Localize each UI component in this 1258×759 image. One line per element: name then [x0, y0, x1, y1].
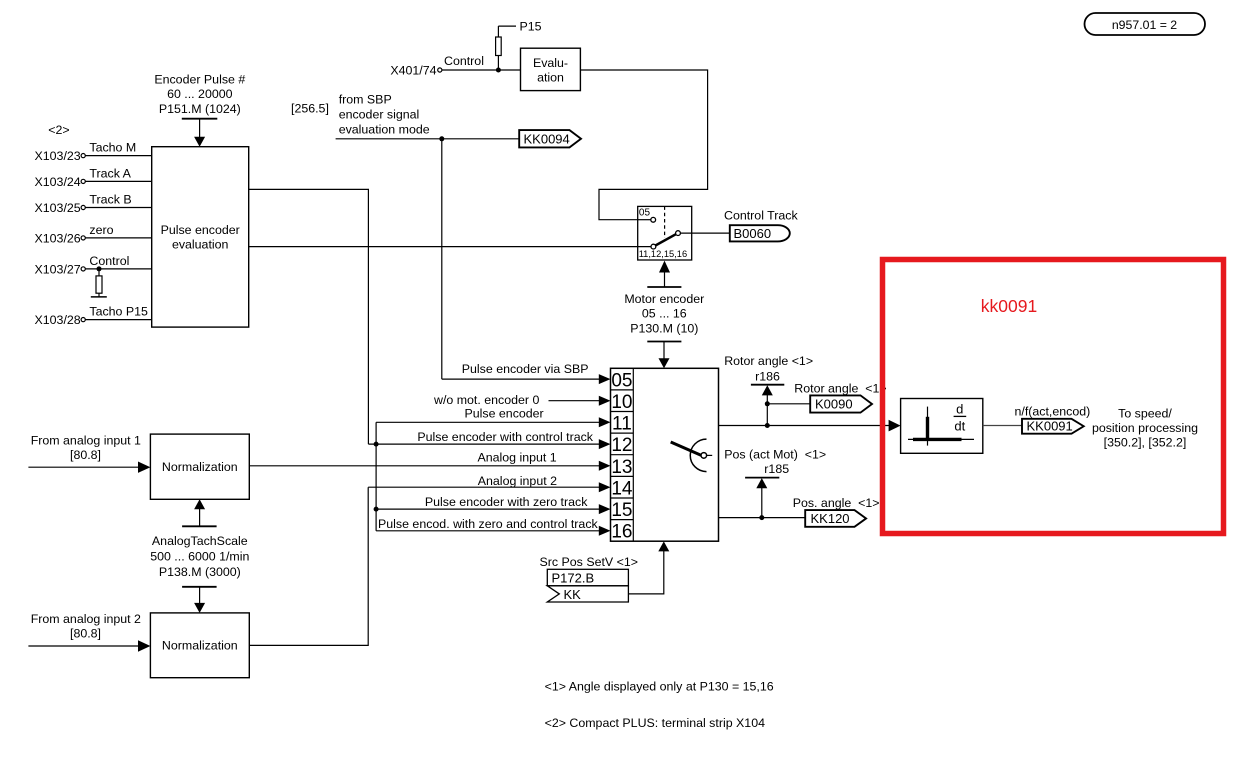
svg-text:16: 16 [611, 522, 632, 543]
mux input 11 Pulse encoder [376, 406, 610, 427]
contact circle 05 [651, 217, 656, 222]
parameter label Encoder Pulse # [154, 72, 245, 115]
parameter label Motor encoder P130 [624, 292, 704, 336]
svg-text:[80.8]: [80.8] [70, 627, 101, 641]
wire into contact 05 [638, 219, 651, 221]
svg-text:evaluation: evaluation [172, 238, 229, 252]
svg-text:P172.B: P172.B [552, 570, 595, 585]
svg-text:K0090: K0090 [815, 397, 853, 412]
svg-text:11: 11 [612, 414, 632, 435]
svg-text:15: 15 [611, 500, 632, 521]
svg-text:Evalu-: Evalu- [533, 56, 568, 70]
svg-text:[80.8]: [80.8] [70, 448, 101, 462]
svg-text:Src Pos SetV <1>: Src Pos SetV <1> [540, 555, 639, 569]
svg-text:Tacho M: Tacho M [89, 141, 136, 155]
mux input 15 Pulse encoder with zero track [376, 495, 610, 514]
wire rail B inputs 11-16 [375, 422, 377, 531]
wire rail C Normalization 2 to input 14 [249, 487, 368, 645]
label To speed/position processing [1092, 406, 1198, 449]
junction control resistor [97, 266, 102, 271]
svg-text:zero: zero [89, 223, 113, 237]
svg-text:05 ... 16: 05 ... 16 [642, 307, 687, 321]
svg-text:X401/74: X401/74 [390, 63, 436, 77]
parameter arrow into evaluation block [182, 119, 218, 147]
svg-text:From analog input 1: From analog input 1 [31, 433, 141, 447]
junction rail B input 15 [374, 507, 379, 512]
wire rail A evaluation out1 to input 12 [249, 189, 369, 444]
block Pulse encoder evaluation [152, 147, 249, 327]
svg-text:KK: KK [564, 587, 582, 602]
svg-text:n/f(act,encod): n/f(act,encod) [1015, 404, 1091, 418]
svg-text:Track A: Track A [89, 166, 131, 180]
dashed divider [664, 206, 666, 238]
svg-text:05: 05 [611, 370, 632, 391]
svg-text:w/o mot. encoder 0: w/o mot. encoder 0 [433, 393, 539, 407]
wire Evaluation to switch S1 [580, 70, 707, 220]
svg-text:Tacho P15: Tacho P15 [89, 305, 148, 319]
terminal X103/26 zero [35, 223, 152, 246]
parameter label AnalogTachScale [150, 534, 249, 579]
svg-text:Pos. angle <1>: Pos. angle <1> [793, 496, 880, 510]
wire evaluation out2 to switch contact [249, 246, 651, 248]
junction rotor angle [765, 423, 770, 428]
wire SBP to mux input 05 [442, 139, 611, 384]
page label n957.01 = 2 [1085, 13, 1206, 35]
svg-text:r186: r186 [755, 370, 780, 384]
svg-text:Rotor angle <1>: Rotor angle <1> [794, 382, 886, 396]
svg-text:r185: r185 [764, 462, 789, 476]
connector KK0094 [519, 130, 581, 147]
svg-text:B0060: B0060 [734, 226, 772, 241]
svg-text:To speed/: To speed/ [1118, 406, 1172, 420]
connector KK0091 [1022, 419, 1084, 434]
svg-text:[350.2], [352.2]: [350.2], [352.2] [1104, 436, 1187, 450]
svg-text:Pulse encoder with zero track: Pulse encoder with zero track [425, 495, 588, 509]
svg-text:Analog input 1: Analog input 1 [477, 451, 556, 465]
svg-text:P15: P15 [520, 20, 542, 34]
wire switch to B0060 [681, 232, 730, 234]
svg-text:Analog input 2: Analog input 2 [478, 474, 557, 488]
wire to K0090 [767, 403, 810, 405]
svg-text:ation: ation [537, 71, 564, 85]
svg-text:KK120: KK120 [811, 511, 850, 526]
svg-text:P138.M (3000): P138.M (3000) [159, 565, 241, 579]
wire d/dt to KK0091 [983, 425, 1022, 427]
junction Control/P15 [496, 68, 501, 73]
svg-text:P151.M (1024): P151.M (1024) [159, 102, 241, 116]
svg-text:<1> Angle displayed only at P1: <1> Angle displayed only at P130 = 15,16 [545, 679, 774, 693]
svg-text:Pulse encod. with zero and con: Pulse encod. with zero and control track [378, 517, 599, 531]
terminal X103/25 Track B [35, 193, 152, 216]
terminal X103/24 Track A [35, 166, 152, 189]
resistor on control line [91, 269, 107, 297]
wire mux out rotor angle to d/dt [719, 425, 890, 427]
connector K0090 [810, 395, 872, 412]
svg-text:kk0091: kk0091 [981, 296, 1037, 316]
junction SBP [439, 136, 444, 141]
svg-text:X103/27: X103/27 [35, 262, 81, 276]
mux input 16 Pulse encod. with zero and control track [376, 517, 610, 536]
block d/dt differentiator [901, 399, 983, 454]
block Normalization 1 [150, 434, 249, 499]
junction rail B input 12 [374, 442, 379, 447]
mux input 14 Analog input 2 [368, 474, 610, 492]
connector flag KK [547, 586, 628, 602]
wire analog input 1 [28, 462, 150, 473]
svg-text:11,12,15,16: 11,12,15,16 [639, 249, 687, 259]
terminal X401/74 [390, 63, 442, 77]
svg-text:500 ... 6000 1/min: 500 ... 6000 1/min [150, 549, 249, 563]
parameter arrow into mux top [647, 342, 681, 369]
svg-text:[256.5]: [256.5] [291, 102, 329, 116]
svg-text:Pulse encoder via SBP: Pulse encoder via SBP [462, 362, 589, 376]
mux input 13 Analog input 1 from Normalization 1 [249, 451, 610, 471]
highlight box kk0091 [883, 260, 1224, 534]
svg-text:encoder signal: encoder signal [339, 108, 420, 122]
svg-text:AnalogTachScale: AnalogTachScale [152, 534, 248, 548]
svg-text:14: 14 [611, 478, 633, 499]
svg-text:Control Track: Control Track [724, 209, 798, 223]
svg-text:n957.01 = 2: n957.01 = 2 [1112, 18, 1177, 32]
connector B0060 [730, 225, 790, 241]
mux input 10 w/o mot. encoder [433, 393, 611, 407]
display r186 [751, 370, 784, 426]
resistor to P15 [496, 26, 502, 70]
svg-text:Pulse encoder: Pulse encoder [464, 406, 543, 420]
svg-text:X103/23: X103/23 [35, 149, 81, 163]
wire SBP to KK0094 [336, 138, 520, 140]
net label From analog input 2 [31, 612, 141, 641]
svg-text:P130.M (10): P130.M (10) [630, 322, 698, 336]
svg-text:position processing: position processing [1092, 421, 1198, 435]
svg-text:<2> Compact PLUS: terminal str: <2> Compact PLUS: terminal strip X104 [545, 716, 765, 730]
net label from SBP encoder signal evaluation mode [339, 93, 430, 137]
svg-text:Control: Control [444, 54, 484, 68]
svg-text:X103/26: X103/26 [35, 231, 81, 245]
mux input 12 Pulse encoder with control track [368, 430, 610, 449]
svg-text:12: 12 [611, 435, 632, 456]
terminal X103/23 Tacho M [35, 141, 152, 164]
switch symbol inside mux [671, 439, 713, 472]
svg-text:Normalization: Normalization [162, 460, 238, 474]
switch wiper [651, 231, 680, 249]
svg-text:Pulse encoder: Pulse encoder [161, 223, 240, 237]
svg-text:60 ... 20000: 60 ... 20000 [167, 87, 233, 101]
wire KK to mux bottom [628, 541, 669, 594]
svg-text:Rotor angle <1>: Rotor angle <1> [724, 354, 813, 368]
arrowhead into d/dt [889, 420, 901, 432]
junction to K0090 [765, 401, 770, 406]
svg-text:Pos (act Mot) <1>: Pos (act Mot) <1> [724, 447, 826, 461]
mux cell numbers [611, 370, 633, 542]
parameter arrow into Normalization 2 [182, 587, 217, 613]
net label From analog input 1 [31, 433, 141, 462]
svg-text:d: d [956, 402, 963, 417]
block Normalization 2 [150, 613, 249, 678]
parameter box P172.B [547, 569, 628, 586]
parameter arrow into Normalization 1 [182, 499, 217, 526]
wire mux out pos to KK120 [719, 517, 806, 519]
svg-text:13: 13 [611, 457, 632, 478]
mux block P130 [611, 368, 719, 541]
terminal X103/28 Tacho P15 [35, 305, 152, 328]
svg-text:Pulse encoder with control tra: Pulse encoder with control track [417, 430, 593, 444]
svg-text:<2>: <2> [48, 123, 69, 137]
power P15 [498, 20, 541, 34]
svg-text:Normalization: Normalization [162, 639, 238, 653]
svg-text:X103/25: X103/25 [35, 201, 81, 215]
display r185 [745, 462, 789, 518]
svg-text:Control: Control [89, 254, 129, 268]
svg-text:Motor encoder: Motor encoder [624, 292, 704, 306]
svg-text:X103/28: X103/28 [35, 313, 81, 327]
svg-text:05: 05 [639, 208, 651, 219]
svg-text:evaluation mode: evaluation mode [339, 123, 430, 137]
svg-text:from SBP: from SBP [339, 93, 392, 107]
svg-text:KK0091: KK0091 [1027, 419, 1073, 434]
wire X401/74 to Evaluation [442, 69, 521, 71]
svg-text:Encoder Pulse #: Encoder Pulse # [154, 72, 245, 86]
svg-text:10: 10 [611, 392, 632, 413]
svg-text:KK0094: KK0094 [524, 131, 570, 146]
svg-text:X103/24: X103/24 [35, 175, 81, 189]
svg-text:dt: dt [954, 419, 965, 434]
parameter arrow into switch bottom [647, 261, 681, 287]
svg-text:Track B: Track B [89, 193, 131, 207]
connector KK120 [805, 510, 866, 527]
switch S1 box [638, 206, 692, 260]
svg-text:From analog input 2: From analog input 2 [31, 612, 141, 626]
terminal X103/27 Control [35, 254, 152, 277]
block Evaluation [521, 48, 581, 90]
junction pos angle [759, 515, 764, 520]
wire analog input 2 [28, 640, 150, 651]
